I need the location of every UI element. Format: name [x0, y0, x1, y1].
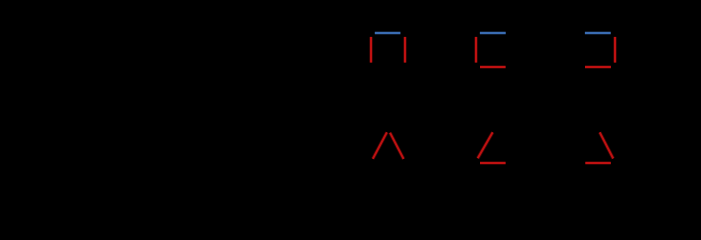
molecule 3 lower ring: red slanted bond — [600, 132, 614, 158]
molecule 2 upper ring: red bottom bond — [480, 65, 506, 69]
molecule 2 upper ring: red left bond — [474, 37, 478, 63]
molecule 1 lower ring: red left leg bond — [373, 132, 387, 159]
molecule 3 upper ring: blue top bond — [585, 31, 611, 35]
molecule 1 upper ring: red left bond — [369, 37, 373, 63]
molecule 2 lower ring: red bottom bond — [480, 161, 506, 165]
molecule 1 lower ring: red right leg bond — [390, 133, 404, 159]
molecule 3 upper ring: red bottom bond — [585, 65, 611, 69]
molecule 1 upper ring: red right bond — [403, 37, 407, 63]
molecule 1 upper ring: blue top bond — [375, 31, 401, 35]
molecule 3 upper ring: red right bond — [613, 37, 617, 63]
molecule 2 lower ring: red slanted bond — [478, 132, 493, 158]
molecule 2 upper ring: blue top bond — [480, 31, 506, 35]
molecule 3 lower ring: red bottom bond — [585, 161, 611, 165]
